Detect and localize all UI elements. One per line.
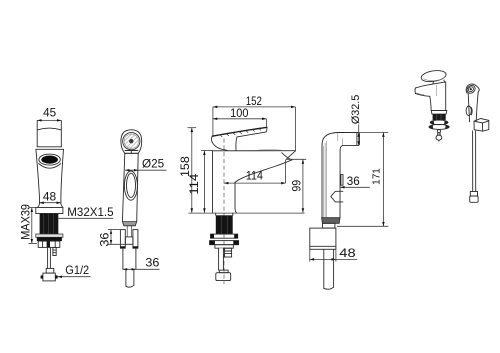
threaded shank center — [216, 215, 233, 234]
centerline dashed — [223, 139, 225, 285]
mini faucet tail — [436, 130, 442, 142]
dim 100 line — [213, 118, 267, 127]
svg-text:Ø32.5: Ø32.5 — [350, 95, 362, 125]
outlet tube right — [324, 249, 334, 289]
svg-text:171: 171 — [371, 168, 382, 185]
mini sprayer head — [465, 84, 479, 95]
body column — [213, 151, 237, 213]
mini faucet washers — [429, 120, 450, 129]
hose nipple — [225, 248, 232, 257]
base flange plate — [36, 208, 63, 214]
mini faucet thread — [433, 114, 446, 120]
dim 171 line — [337, 133, 388, 227]
mini hose — [473, 131, 476, 192]
holder hook wedge — [331, 191, 343, 202]
svg-text:100: 100 — [230, 107, 249, 120]
washer plate — [36, 234, 63, 237]
sprayer handle — [122, 153, 138, 221]
svg-text:G1/2: G1/2 — [65, 263, 89, 277]
mini faucet neck — [433, 80, 445, 84]
spout outlet ring — [39, 154, 60, 165]
G1/2 leader arrow — [58, 275, 91, 278]
trigger oval outer — [124, 171, 137, 200]
sprayer hose tail — [126, 269, 134, 287]
trigger oval inner — [127, 173, 136, 197]
sprayer head side — [338, 133, 360, 146]
hose end fitting — [216, 270, 231, 281]
MAX39 dim line — [28, 208, 37, 244]
threaded shank M32 — [40, 214, 59, 235]
svg-text:36: 36 — [145, 255, 159, 269]
washer plate 1 — [211, 234, 238, 238]
dim 36 bottom — [123, 268, 160, 270]
dim 48 right line — [310, 249, 357, 261]
svg-text:48: 48 — [339, 246, 355, 260]
tube below bracket — [123, 248, 136, 269]
dim 114 horizontal line — [224, 160, 286, 185]
holder tab — [341, 175, 343, 186]
mini sprayer trigger — [466, 106, 472, 116]
locknut — [38, 241, 60, 247]
handle bottom band right — [322, 218, 340, 224]
body top deck line — [213, 149, 296, 152]
spout underside — [235, 160, 292, 182]
sprayer face circle inner — [124, 134, 138, 148]
spout mouth line — [282, 153, 292, 160]
washer plate 2 — [210, 241, 239, 245]
mounting surface line — [188, 212, 304, 214]
svg-text:45: 45 — [43, 106, 56, 120]
rubber washer — [37, 237, 62, 241]
M32X1.5 leader — [58, 217, 113, 219]
body front — [36, 149, 64, 207]
lever handle — [212, 127, 267, 150]
spout tip end cut — [286, 151, 295, 159]
svg-text:152: 152 — [246, 94, 262, 108]
dim 48 line — [39, 201, 61, 204]
sprayer face hatch — [122, 126, 142, 152]
spout collar arc — [39, 164, 61, 169]
holder joint — [323, 223, 335, 228]
supply rod center — [219, 248, 224, 270]
elbow outer — [322, 133, 338, 218]
hose nipple v1 — [53, 247, 56, 255]
handle front — [37, 121, 61, 147]
supply rod — [48, 247, 51, 268]
svg-text:99: 99 — [289, 180, 303, 192]
svg-text:MAX39: MAX39 — [18, 204, 32, 240]
sprayer face circle outer — [123, 133, 140, 150]
O32.5 dim line — [358, 125, 360, 146]
handle bottom taper — [122, 222, 136, 226]
mini faucet lever — [420, 69, 447, 83]
sprayer face center screw — [130, 140, 133, 143]
bracket crossbar — [125, 237, 133, 244]
sprayer head outline — [121, 130, 142, 154]
mini holder bracket — [474, 119, 489, 132]
bracket rail right — [133, 230, 138, 249]
spout outlet oval — [41, 156, 58, 164]
svg-text:114: 114 — [246, 169, 263, 183]
dim 36 right leader — [340, 186, 370, 189]
bracket rail left — [120, 230, 125, 249]
holder base block — [310, 228, 336, 249]
dim 152 line — [213, 106, 296, 151]
svg-text:36: 36 — [347, 174, 360, 188]
dim 158 line — [188, 128, 197, 213]
svg-text:36: 36 — [98, 232, 112, 246]
dim O25 — [125, 169, 166, 171]
mini faucet deck flange — [431, 110, 447, 114]
locknut center — [215, 245, 233, 249]
mini hose connector — [470, 192, 478, 203]
dim 114 vertical line — [201, 151, 212, 213]
elbow joint lines — [338, 133, 343, 145]
handle tube in bracket — [127, 226, 131, 237]
shank neck — [216, 213, 233, 215]
G1/2 fitting — [41, 268, 58, 281]
elbow inner — [340, 145, 343, 217]
svg-text:Ø25: Ø25 — [142, 157, 165, 171]
svg-text:M32X1.5: M32X1.5 — [67, 206, 114, 219]
mini faucet spout — [415, 84, 431, 96]
svg-text:114: 114 — [187, 173, 201, 194]
handle shading — [324, 141, 327, 217]
svg-text:48: 48 — [43, 189, 57, 203]
dim 45 line — [37, 119, 61, 122]
dim 36 left — [108, 230, 125, 245]
sprayer neck joint — [125, 151, 139, 154]
mini sprayer handle — [468, 92, 478, 122]
mini faucet body — [430, 82, 446, 111]
dim 99 line — [286, 159, 306, 212]
